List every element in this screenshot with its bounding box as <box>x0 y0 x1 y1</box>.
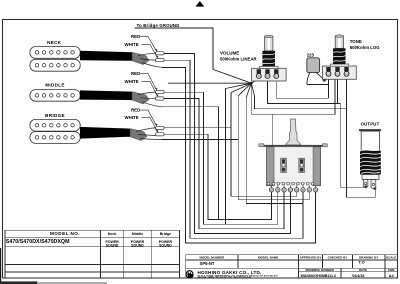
svg-text:HOSHINO GAKKI CO., LTD.: HOSHINO GAKKI CO., LTD. <box>198 270 262 275</box>
volume lug3 to tone lug1 <box>276 79 328 99</box>
cap left leg run <box>307 83 329 85</box>
svg-text:SP5-NT: SP5-NT <box>200 261 215 266</box>
svg-text:W82806GH3MB11L3: W82806GH3MB11L3 <box>301 274 336 278</box>
svg-text:WHITE: WHITE <box>125 115 139 120</box>
fan spoke sC vertical + U2 <box>238 96 309 200</box>
wire to-bridge-ground underline + drop <box>135 28 214 69</box>
fan diagonals <box>168 69 259 97</box>
svg-text:MODEL NAME: MODEL NAME <box>258 256 278 260</box>
svg-text:To Bridge GROUND: To Bridge GROUND <box>137 23 180 28</box>
fan spoke sA vertical joining B5 run <box>225 89 227 225</box>
svg-text:Bridge: Bridge <box>160 232 171 236</box>
neck white link B2 <box>164 60 303 238</box>
middle cable <box>80 90 132 100</box>
svg-text:RED: RED <box>131 71 140 76</box>
svg-text:223: 223 <box>307 52 315 57</box>
svg-text:SCALE: SCALE <box>386 256 396 260</box>
svg-text:RED: RED <box>131 34 140 39</box>
volume pot U-VOL <box>252 35 287 81</box>
svg-text:DRAWING NUMBER: DRAWING NUMBER <box>305 268 334 272</box>
side columns <box>267 147 275 186</box>
volume lug2 to tone lug2 and jack tip <box>268 79 366 188</box>
fan spoke sE vertical + output ground run <box>255 96 348 109</box>
bridge pills <box>156 126 165 136</box>
svg-text:VOLUME: VOLUME <box>220 51 239 56</box>
middle pickup (single coil) <box>30 90 80 102</box>
body <box>274 147 313 183</box>
tone pot U-TONE <box>323 35 357 80</box>
mounting plate <box>259 145 327 147</box>
middle red link B5 <box>164 92 278 224</box>
scan artifacts <box>0 248 1 284</box>
svg-text:MODEL NUMBER: MODEL NUMBER <box>200 256 226 260</box>
neck red link B3 <box>164 53 290 233</box>
bridge red link joins sB vertical <box>164 127 231 129</box>
lever <box>286 119 301 145</box>
svg-text:CHECKED BY: CHECKED BY <box>328 256 348 260</box>
solder lugs <box>269 188 318 192</box>
middle dark U0 <box>162 107 218 220</box>
fan spoke sD vertical + tone-case / switch-plate link <box>251 80 335 115</box>
svg-text:MODEL NO.: MODEL NO. <box>50 231 80 236</box>
svg-text:500Kohm LINEAR: 500Kohm LINEAR <box>220 56 257 61</box>
slots <box>281 158 287 172</box>
bridge pickup (humbucker) <box>30 119 80 143</box>
svg-text:TONE: TONE <box>350 39 362 44</box>
5-way switch SW1 <box>259 119 327 192</box>
switch plate ground drop <box>272 114 274 146</box>
tone lug3 to jack sleeve <box>347 77 376 198</box>
svg-text:'04/4/28: '04/4/28 <box>352 274 365 278</box>
fan spoke sG vertical + U3 <box>246 98 303 204</box>
bridge cable <box>80 127 130 139</box>
svg-text:SOUND: SOUND <box>159 244 172 248</box>
svg-text:NECK: NECK <box>47 40 62 45</box>
svg-text:SIZE: SIZE <box>388 268 395 272</box>
svg-text:WHITE: WHITE <box>125 79 139 84</box>
svg-text:RED: RED <box>131 108 140 113</box>
terminal strip <box>267 183 314 186</box>
model table <box>5 230 180 278</box>
neck dark B1 <box>162 67 316 243</box>
lug stems <box>272 185 316 188</box>
hoshino logo <box>186 271 193 279</box>
svg-text:T.O: T.O <box>359 259 365 264</box>
middle pills <box>156 91 165 101</box>
svg-text:DATE: DATE <box>359 268 367 272</box>
svg-text:Middle: Middle <box>132 232 143 236</box>
fold mark triangle <box>196 1 205 7</box>
fan spoke sB vertical + U1 <box>231 93 297 197</box>
svg-text:APPROVED BY: APPROVED BY <box>300 256 322 260</box>
svg-text:OUTPUT: OUTPUT <box>361 122 380 127</box>
neck pickup (humbucker) <box>30 47 80 72</box>
volume lugs <box>256 69 278 78</box>
bridge dark to sC vertical <box>162 139 238 141</box>
svg-text:SOUND: SOUND <box>131 244 144 248</box>
title block <box>186 255 398 278</box>
svg-text:S470/S470DX/S470DXQM: S470/S470DX/S470DXQM <box>6 239 70 245</box>
svg-text:SOUND: SOUND <box>106 244 119 248</box>
svg-text:Neck: Neck <box>108 232 117 236</box>
svg-text:NAGOYA, JAPAN TEL 052-931-32: NAGOYA, JAPAN TEL 052-931-3221 FAX 052-9… <box>198 276 252 279</box>
middle white link B4 <box>164 99 284 229</box>
svg-text:MIDDLE: MIDDLE <box>45 83 64 88</box>
svg-text:BRIDGE: BRIDGE <box>45 113 65 118</box>
svg-text:500Kohm LOG: 500Kohm LOG <box>350 45 381 50</box>
neck cable <box>80 51 132 61</box>
lugs <box>363 180 368 188</box>
svg-text:WHITE: WHITE <box>125 42 139 47</box>
capacitor 223 <box>307 58 320 73</box>
bridge white link B6 <box>164 134 272 219</box>
neck wire terminals (pills) <box>156 52 165 62</box>
